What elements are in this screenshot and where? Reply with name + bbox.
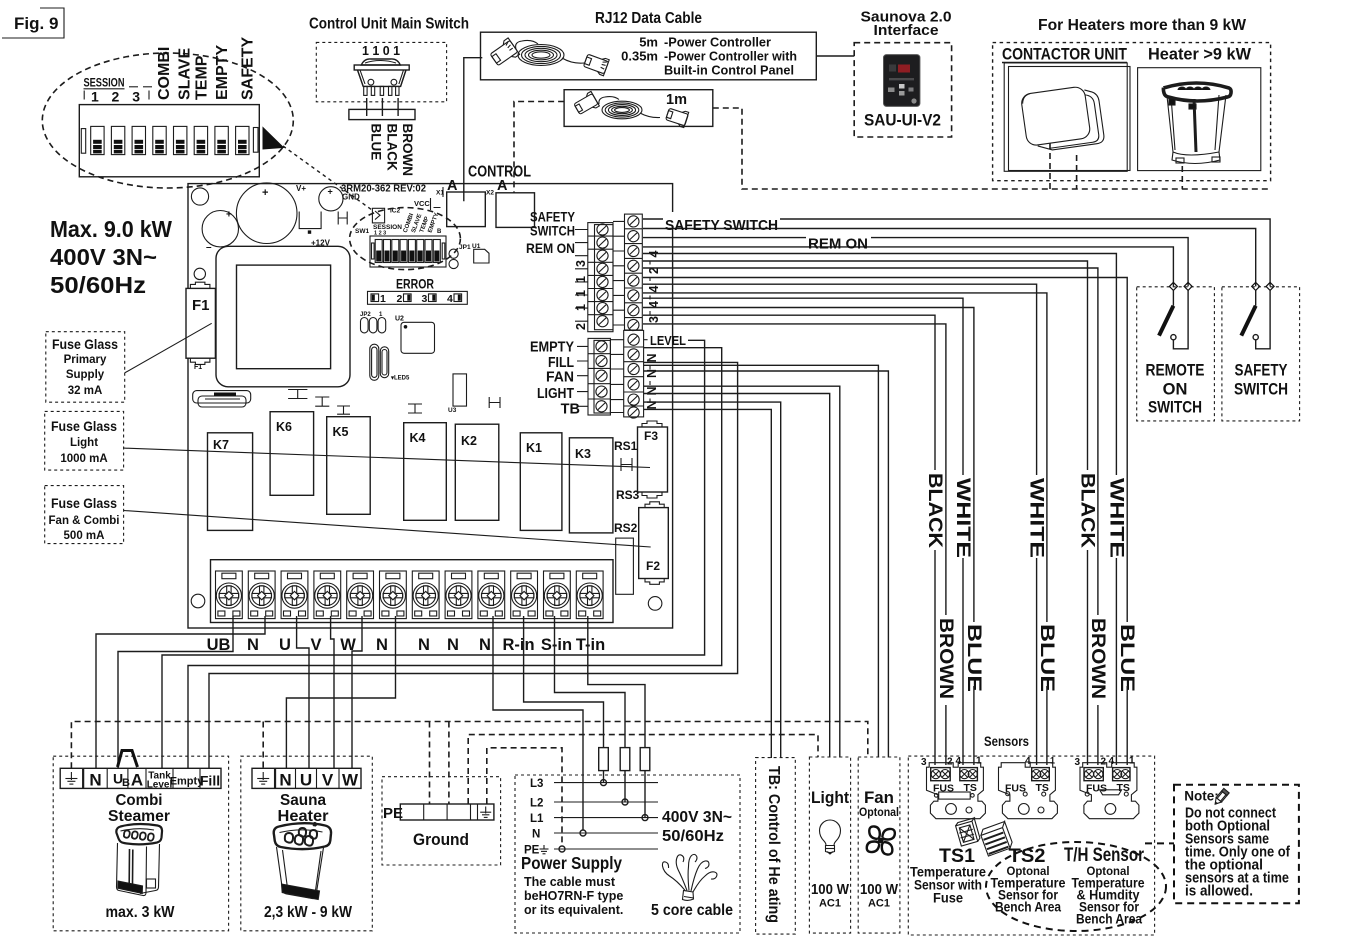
svg-text:2: 2	[397, 293, 403, 305]
svg-text:V+: V+	[296, 184, 306, 193]
svg-text:EMPTY: EMPTY	[530, 340, 574, 356]
tiny rotated labels on PCB dip	[403, 212, 442, 235]
wire sensor TS1 blue	[643, 308, 974, 623]
capacitor symbol H	[338, 212, 347, 225]
heater dashed lead	[1181, 166, 1183, 189]
svg-text:Sauna: Sauna	[280, 792, 326, 809]
wire V to Sauna V	[331, 616, 334, 768]
svg-text:B: B	[437, 229, 442, 235]
svg-text:Power Supply: Power Supply	[521, 853, 622, 873]
wire S-in to fuse/L2	[555, 616, 626, 748]
svg-text:is allowed.: is allowed.	[1185, 884, 1253, 900]
svg-text:N: N	[376, 636, 388, 654]
svg-text:N: N	[532, 829, 540, 841]
TS1 sensor photos	[955, 818, 1014, 856]
svg-text:SAFETY SWITCH: SAFETY SWITCH	[665, 217, 778, 234]
fuse on S phase	[620, 748, 630, 771]
svg-text:RS1: RS1	[614, 439, 638, 453]
Fan dashed box	[858, 757, 900, 933]
safety switch terminals	[1252, 282, 1260, 290]
RJ12 1m cable box	[564, 90, 713, 127]
Ground strip	[400, 804, 494, 820]
wire tank-level: LEVEL to Combi	[162, 340, 705, 768]
svg-text:LEVEL: LEVEL	[650, 333, 686, 348]
TB control box	[756, 758, 796, 935]
svg-text:Note:: Note:	[1184, 789, 1219, 804]
svg-text:SWITCH: SWITCH	[1234, 381, 1288, 399]
relay K7	[208, 433, 253, 531]
svg-text:EMPTY: EMPTY	[214, 45, 231, 100]
RJ12 cable box (5m / 0.35m)	[481, 32, 817, 80]
DIP position digits 1 2 3	[84, 89, 149, 105]
fuse note box 2: Fuse Glass Light 1000 mA	[45, 411, 124, 470]
component below RS2	[616, 538, 634, 594]
H pad near K1	[621, 458, 632, 471]
svg-text:32 mA: 32 mA	[68, 385, 103, 397]
svg-text:K2: K2	[461, 434, 477, 448]
svg-text:+: +	[226, 210, 232, 221]
svg-text:400V 3N~: 400V 3N~	[50, 244, 157, 270]
wire sensor TS1 black	[643, 315, 935, 470]
wire W to Sauna W	[352, 616, 362, 768]
svg-text:50/60Hz: 50/60Hz	[662, 828, 724, 845]
svg-text:V: V	[310, 636, 321, 654]
svg-text:FUS: FUS	[933, 783, 954, 795]
svg-text:F3: F3	[644, 429, 658, 443]
svg-text:2: 2	[574, 323, 588, 330]
svg-text:Supply: Supply	[66, 369, 105, 381]
cable icon 5m	[488, 38, 609, 76]
svg-text:TB: Control of He ating: TB: Control of He ating	[765, 766, 782, 923]
callout ellipse (DIP switch detail)	[42, 53, 293, 188]
Saunova control panel device SAU-UI-V2	[884, 55, 920, 107]
connector X1	[447, 192, 486, 227]
wire sensor T/H black	[643, 261, 1088, 470]
wire TB 2	[644, 409, 772, 758]
wire sensor TS2 white	[643, 284, 1037, 475]
svg-text:4: 4	[447, 293, 453, 305]
svg-text:5m: 5m	[639, 35, 658, 50]
svg-text:RJ12 Data Cable: RJ12 Data Cable	[595, 10, 702, 27]
rocker switch S1	[354, 59, 409, 95]
terminal strip block	[211, 560, 614, 623]
svg-text:V: V	[322, 771, 334, 790]
mounting hole bottom-left	[191, 594, 205, 608]
svg-text:N: N	[479, 636, 491, 654]
svg-text:0.35m: 0.35m	[621, 49, 658, 64]
wire RJ12 box to Saunova	[816, 55, 854, 57]
mounting hole left	[194, 268, 205, 279]
DIP switches 1-8	[91, 126, 249, 154]
remote switch symbol	[1172, 290, 1174, 305]
fuse F3	[638, 421, 668, 498]
light bulb icon	[820, 820, 841, 854]
Note box	[1174, 785, 1299, 903]
antenna strap over A terminal	[118, 751, 138, 768]
svg-text:SLAVE: SLAVE	[177, 48, 194, 100]
svg-text:Bench Area: Bench Area	[1076, 912, 1142, 927]
svg-text:N: N	[89, 771, 101, 790]
svg-text:FAN: FAN	[546, 370, 574, 386]
wire segment below label	[934, 550, 936, 765]
svg-text:BROWN: BROWN	[935, 618, 956, 699]
svg-text:F1: F1	[192, 297, 210, 314]
callout pointer triangle	[263, 126, 285, 149]
terminals 1-12	[216, 571, 243, 619]
fuse on R phase	[599, 748, 609, 771]
rating text Max 9.0 kW 400V 3N~ 50/60Hz	[50, 216, 172, 298]
wire T-in to fuse/L1	[588, 616, 645, 748]
svg-text:AC1: AC1	[868, 898, 890, 910]
capacitor C2	[202, 211, 238, 247]
sauna heater drawing	[274, 821, 331, 900]
svg-text:4: 4	[1025, 756, 1031, 767]
svg-text:K1: K1	[526, 441, 542, 455]
svg-text:TB: TB	[561, 402, 580, 418]
line fuse T to L1 node	[644, 771, 646, 818]
svg-text:RS3: RS3	[616, 488, 640, 502]
svg-text:BLUE: BLUE	[963, 624, 984, 692]
svg-text:K3: K3	[575, 447, 591, 461]
Power Supply dashed box	[515, 775, 740, 933]
wire RJ12 box to control X1	[464, 58, 483, 202]
rotated switch names COMBI SLAVE TEMP EMPTY SAFETY	[156, 37, 257, 100]
svg-text:WHITE: WHITE	[952, 478, 973, 558]
N pin labels (rotated)	[645, 353, 659, 409]
svg-text:N: N	[247, 636, 259, 654]
svg-text:N: N	[279, 771, 291, 790]
PE bus 1	[71, 722, 867, 769]
Sauna terminal strip	[252, 768, 361, 789]
svg-text:BLACK: BLACK	[924, 473, 945, 548]
I-beam pad 4	[408, 404, 422, 413]
svg-text:2: 2	[112, 89, 120, 105]
mounting hole top-left	[191, 188, 208, 205]
svg-text:1: 1	[574, 276, 588, 283]
wire colour labels BLUE BLACK BROWN	[369, 124, 416, 177]
svg-text:X2: X2	[486, 190, 494, 197]
svg-text:VCC: VCC	[414, 199, 430, 208]
wire N to Combi N	[96, 616, 265, 768]
svg-text:100 W: 100 W	[811, 881, 850, 898]
PE bus 3 (Ground earth to power PE)	[487, 748, 562, 846]
wire rem-on 2	[643, 247, 1173, 287]
wire light 1	[644, 386, 840, 757]
svg-text:L2: L2	[530, 798, 543, 810]
Combi Steamer dashed box	[53, 756, 228, 931]
wire rem-on 1	[643, 238, 1188, 287]
svg-text:BLUE: BLUE	[1036, 624, 1057, 692]
Light dashed box	[809, 757, 850, 933]
wire safety-switch 1	[643, 219, 1270, 286]
svg-text:SWITCH: SWITCH	[1148, 399, 1202, 417]
svg-text:2,3 kW - 9 kW: 2,3 kW - 9 kW	[264, 904, 352, 921]
pin digits left: 2 1 1 1 3	[574, 260, 588, 330]
wire U to Sauna U	[297, 616, 309, 768]
fuse note box 3: Fuse Glass Fan & Combi 500 mA	[45, 486, 124, 544]
svg-text:K4: K4	[410, 431, 426, 445]
REMOTE ON SWITCH box	[1137, 282, 1215, 421]
pointer line to F1	[125, 323, 212, 373]
REM ON net label	[806, 231, 871, 253]
wire light 2	[644, 394, 830, 758]
svg-text:Fig. 9: Fig. 9	[14, 14, 58, 33]
svg-text:5 core cable: 5 core cable	[651, 902, 733, 919]
svg-text:L1: L1	[530, 813, 544, 825]
fuse note box 1: Fuse Glass Primary Supply 32 mA	[46, 332, 125, 403]
heater >9kW drawing	[1163, 83, 1231, 164]
svg-text:100 W: 100 W	[860, 881, 899, 898]
wire sensor T/H brown	[643, 268, 1098, 615]
SAFETY SWITCH box	[1222, 282, 1300, 421]
PE drop to Ground strip 2	[448, 722, 450, 805]
svg-text:Built-in Control Panel: Built-in Control Panel	[664, 63, 794, 78]
capacitor C1 (large)	[236, 183, 297, 244]
sensor module TS2	[999, 756, 1058, 819]
svg-text:BLACK: BLACK	[384, 124, 399, 171]
wire UB to Combi UB	[118, 616, 233, 768]
connector X2	[496, 193, 535, 228]
svg-text:FUS: FUS	[1005, 783, 1026, 795]
svg-text:N: N	[645, 353, 659, 362]
transformer T1	[216, 246, 350, 386]
TS1 fuse cartridge	[939, 792, 971, 799]
upper connector right column	[625, 214, 643, 331]
svg-text:▾LED5: ▾LED5	[390, 376, 410, 382]
stub lines lower connector	[577, 346, 588, 406]
svg-text:SESSION: SESSION	[84, 76, 125, 90]
5 core cable icon	[662, 854, 717, 900]
main switch dashed box	[316, 42, 446, 101]
wire R-in to fuse/L3	[524, 616, 604, 748]
I-beam pad 2	[315, 397, 329, 406]
svg-text:SW1: SW1	[355, 228, 369, 235]
I-beam pad 1	[288, 390, 307, 399]
svg-text:W: W	[342, 771, 359, 790]
svg-text:or its equivalent.: or its equivalent.	[524, 903, 623, 917]
relay K4	[404, 423, 447, 521]
svg-text:SAU-UI-V2: SAU-UI-V2	[864, 111, 941, 130]
svg-text:REM ON: REM ON	[808, 236, 868, 253]
svg-text:Optonal: Optonal	[859, 807, 899, 819]
svg-text:BLACK: BLACK	[1077, 473, 1098, 548]
svg-text:Fuse Glass: Fuse Glass	[51, 496, 117, 511]
fuse on T phase	[640, 748, 650, 771]
svg-text:U3: U3	[448, 407, 457, 414]
svg-text:50/60Hz: 50/60Hz	[50, 272, 146, 298]
svg-text:max. 3 kW: max. 3 kW	[106, 904, 175, 921]
Saunova dashed box	[854, 43, 951, 137]
svg-text:U: U	[300, 771, 312, 790]
svg-text:1 1 0 1: 1 1 0 1	[362, 43, 400, 58]
fuse F2	[639, 502, 669, 585]
SAFETY SWITCH net label	[663, 212, 780, 234]
svg-text:Fuse Glass: Fuse Glass	[52, 337, 118, 352]
wire fill: to Combi	[209, 362, 738, 768]
svg-text:1: 1	[1129, 756, 1135, 767]
dashed ellipse around PCB DIP	[350, 208, 461, 270]
svg-text:ERROR: ERROR	[396, 277, 434, 292]
svg-text:L3: L3	[530, 778, 543, 790]
lower connector left column	[588, 338, 610, 415]
svg-text:T/H Sensor: T/H Sensor	[1064, 845, 1144, 866]
svg-text:A: A	[447, 178, 458, 194]
svg-text:3: 3	[1075, 757, 1081, 768]
svg-text:2: 2	[1101, 757, 1107, 768]
wire sensor TS2 blue	[643, 293, 1047, 622]
svg-text:Light: Light	[70, 437, 98, 449]
svg-text:2: 2	[947, 757, 953, 768]
link ellipse to note box	[1145, 842, 1174, 844]
Sensors dashed box	[908, 756, 1154, 935]
svg-text:3: 3	[422, 293, 428, 305]
svg-text:REMOTE: REMOTE	[1146, 362, 1205, 380]
relay K5	[327, 417, 371, 515]
relay K1	[520, 433, 562, 531]
Combi terminal strip	[60, 768, 221, 790]
svg-text:AC1: AC1	[819, 898, 841, 910]
relay K2	[455, 424, 499, 520]
svg-text:1: 1	[1050, 756, 1055, 766]
svg-text:4: 4	[956, 756, 962, 767]
svg-text:R-in: R-in	[502, 636, 534, 654]
svg-text:Fan & Combi: Fan & Combi	[49, 515, 120, 527]
wire N to Sauna N	[286, 616, 395, 768]
svg-text:BROWN: BROWN	[1087, 618, 1108, 699]
svg-text:T-in: T-in	[576, 636, 605, 654]
H pad near K2	[489, 397, 500, 408]
For-Heaters dashed box	[993, 43, 1271, 181]
svg-text:1: 1	[574, 290, 588, 297]
svg-text:4: 4	[1109, 756, 1115, 767]
svg-text:Steamer: Steamer	[108, 808, 170, 825]
svg-text:TEMP: TEMP	[194, 55, 211, 100]
svg-text:Heater >9 kW: Heater >9 kW	[1148, 46, 1251, 64]
wire sensor T/H white	[643, 254, 1116, 476]
svg-text:BLUE: BLUE	[369, 124, 384, 161]
safety switch symbol	[1255, 290, 1257, 305]
svg-text:SWITCH: SWITCH	[530, 223, 575, 239]
pointer line to F3	[124, 448, 650, 467]
svg-text:Sensors: Sensors	[984, 734, 1029, 749]
wire sensor T/H blue	[643, 278, 1127, 623]
svg-text:1: 1	[976, 756, 982, 767]
PE bus 2 (Ground to Light)	[468, 735, 818, 804]
svg-text:beHO7RN-F type: beHO7RN-F type	[524, 889, 623, 903]
sensor module TS1	[921, 756, 985, 819]
svg-text:F1: F1	[194, 364, 202, 371]
svg-text:+: +	[262, 187, 268, 199]
svg-text:3: 3	[574, 260, 588, 267]
PE drop to Sauna ground	[262, 722, 264, 769]
svg-text:Combi: Combi	[116, 792, 163, 809]
contactor unit frame	[1004, 63, 1127, 171]
svg-text:Fan: Fan	[864, 788, 894, 807]
svg-text:1: 1	[380, 293, 386, 305]
svg-text:U: U	[279, 636, 291, 654]
wire sensor TS1 brown	[643, 324, 946, 615]
IC2 regulator	[372, 208, 384, 223]
lower connector right column	[624, 330, 644, 418]
optional sensors ellipse	[986, 842, 1166, 931]
connector piece below F1	[193, 391, 251, 403]
svg-text:Fuse Glass: Fuse Glass	[51, 419, 117, 434]
SESSION label	[84, 76, 153, 90]
switch wires to connector	[366, 98, 368, 116]
svg-text:S-in: S-in	[541, 636, 572, 654]
svg-text:N: N	[447, 636, 459, 654]
wire empty: to Combi	[188, 348, 722, 769]
wire sensor TS1 white	[643, 298, 963, 475]
svg-text:For Heaters more than 9 kW: For Heaters more than 9 kW	[1038, 17, 1246, 34]
Sauna Heater dashed box	[241, 756, 372, 931]
upper connector left column	[588, 223, 613, 332]
svg-text:COMBI: COMBI	[156, 47, 173, 100]
I-beam pad 3	[337, 406, 350, 414]
svg-text:F2: F2	[646, 559, 660, 573]
fan icon	[867, 826, 895, 854]
cable icon 1m	[573, 91, 689, 127]
mounting hole bottom-right	[648, 597, 662, 611]
svg-text:A: A	[497, 178, 508, 194]
svg-text:-Power Controller with: -Power Controller with	[664, 49, 797, 64]
svg-text:1: 1	[91, 89, 99, 105]
svg-text:The cable must: The cable must	[524, 875, 616, 889]
svg-text:GND: GND	[342, 193, 360, 202]
stub lines between columns	[575, 230, 588, 322]
DIP switch block (detail)	[79, 105, 259, 177]
svg-text:500 mA: 500 mA	[64, 530, 105, 542]
svg-text:A: A	[131, 771, 143, 790]
line fuse S to L2 node	[624, 771, 626, 802]
svg-text:ON: ON	[1163, 381, 1188, 399]
svg-text:JP2: JP2	[360, 312, 371, 318]
wire fan 1	[644, 365, 879, 757]
svg-text:3: 3	[921, 757, 927, 768]
svg-text:WHITE: WHITE	[1105, 478, 1126, 558]
svg-text:K6: K6	[276, 420, 292, 434]
remote switch terminals	[1169, 282, 1177, 290]
svg-text:Ground: Ground	[413, 831, 469, 849]
svg-text:U2: U2	[395, 316, 404, 323]
svg-text:K5: K5	[333, 425, 349, 439]
svg-text:+: +	[328, 187, 333, 197]
dashed wire 1m box to X2	[514, 102, 564, 193]
svg-text:1m: 1m	[666, 92, 687, 108]
line fuse R to L3 node	[603, 771, 605, 783]
svg-text:400V 3N~: 400V 3N~	[662, 809, 732, 826]
svg-text:Interface: Interface	[874, 22, 939, 39]
svg-text:N: N	[418, 636, 430, 654]
relay K3	[569, 438, 613, 533]
heater frame	[1138, 68, 1261, 171]
svg-text:SAFETY: SAFETY	[240, 37, 257, 100]
svg-text:Level: Level	[147, 780, 173, 791]
svg-text:*: *	[313, 821, 317, 831]
ERROR indicator strip	[368, 291, 468, 305]
contactor 3D box	[1020, 84, 1104, 153]
svg-text:-Power Controller: -Power Controller	[664, 35, 771, 50]
terminal labels UB N U V W N N N N R-in S-in T-in	[207, 636, 606, 654]
svg-text:K7: K7	[213, 438, 229, 452]
wire safety-switch 2	[643, 229, 1256, 287]
svg-text:RS2: RS2	[614, 521, 638, 535]
figure label Fig. 9	[2, 8, 64, 38]
svg-text:3: 3	[132, 89, 140, 105]
pointer line to F2	[124, 511, 651, 548]
callout ray to PCB DIP	[283, 146, 372, 210]
svg-text:CONTACTOR UNIT: CONTACTOR UNIT	[1002, 46, 1127, 64]
